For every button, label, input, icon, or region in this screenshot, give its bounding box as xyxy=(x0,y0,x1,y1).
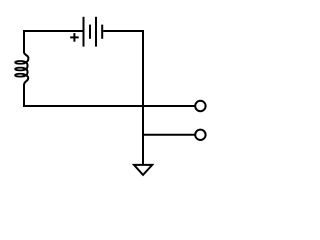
wire left vertical top xyxy=(23,30,25,53)
wire top-right segment from battery xyxy=(103,30,144,32)
terminal circle 2 xyxy=(195,130,205,140)
battery short plate 2 xyxy=(101,25,103,39)
battery long plate 1 xyxy=(83,17,85,47)
battery long plate 2 xyxy=(95,17,97,47)
inductor L1 xyxy=(15,52,28,85)
wire left vertical bottom xyxy=(23,84,25,107)
battery short plate 1 xyxy=(89,25,91,39)
ground xyxy=(134,165,152,175)
terminal circle 1 xyxy=(195,101,205,111)
wire right vertical xyxy=(142,30,144,165)
wire top-left segment to battery xyxy=(24,30,83,32)
wire output line 2 xyxy=(143,134,195,136)
plus label xyxy=(70,33,79,42)
battery BT1 xyxy=(84,17,103,47)
wire output line 1 xyxy=(23,105,195,107)
